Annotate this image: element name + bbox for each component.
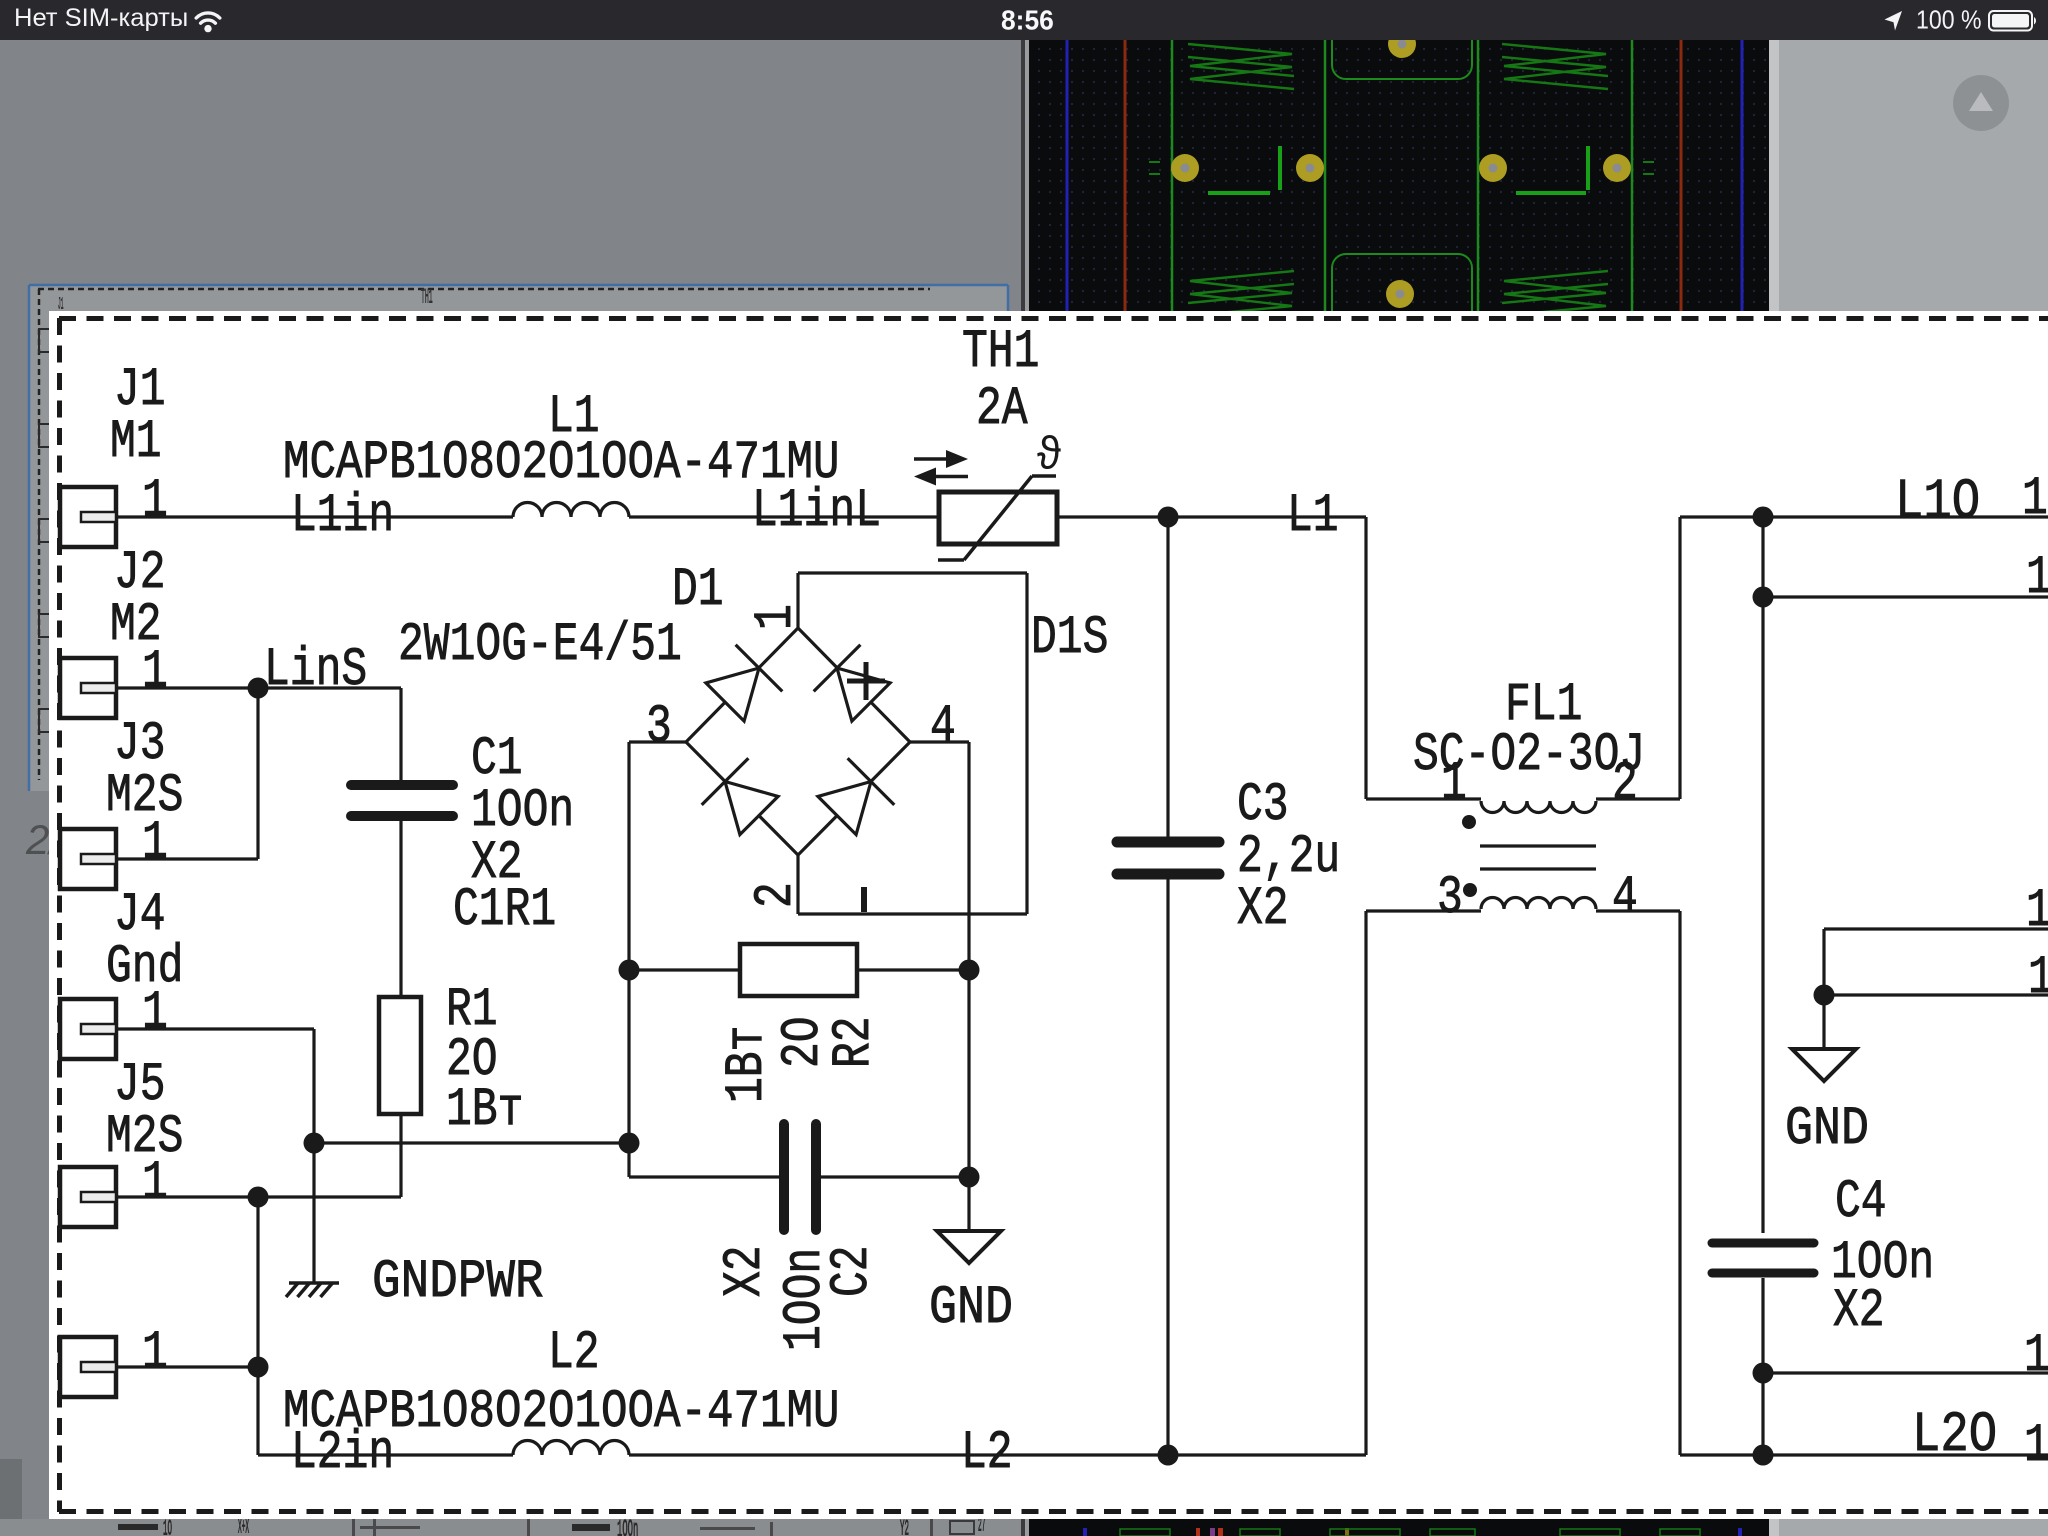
wire J4 pin (Gnd)	[116, 1027, 314, 1030]
svg-text:X2: X2	[1833, 1281, 1885, 1342]
inductor L2	[513, 1441, 629, 1456]
page blue border	[29, 284, 1008, 287]
pcb blue rail left	[1066, 40, 1069, 322]
wire FL1 pin2	[1596, 797, 1680, 800]
svg-text:TH1: TH1	[421, 286, 433, 309]
wire FL1 pin1	[1366, 797, 1481, 800]
wire D1 pin1 stem	[796, 573, 799, 628]
wire D1S loop bottom	[798, 912, 1027, 915]
resistor R1	[379, 997, 421, 1114]
svg-text:1: 1	[2026, 881, 2048, 942]
svg-text:L2: L2	[961, 1423, 1013, 1484]
svg-text:C1R1: C1R1	[453, 880, 556, 941]
junction (258,1197)	[248, 1187, 269, 1208]
svg-text:8:56: 8:56	[1001, 4, 1054, 35]
wire D1S loop right	[1025, 573, 1028, 914]
bottom strip schematic fragments	[0, 1519, 1021, 1536]
pcb trace L right	[1516, 191, 1586, 195]
wire C4 bottom down	[1761, 1278, 1764, 1455]
wire J6 pin	[116, 1365, 258, 1368]
svg-text:1: 1	[142, 471, 168, 532]
svg-text:1: 1	[2028, 948, 2048, 1009]
pcb zigzag TR	[1502, 44, 1608, 76]
junction (629,970)	[619, 960, 640, 981]
svg-text:GND: GND	[1785, 1099, 1869, 1160]
junction (1763,597)	[1753, 587, 1774, 608]
svg-text:L2: L2	[548, 1323, 600, 1384]
wire D1 pin4 stem	[910, 740, 969, 743]
filter FL1 common-mode choke	[1481, 801, 1596, 813]
status bar	[0, 0, 2048, 40]
svg-text:GNDPWR: GNDPWR	[372, 1252, 544, 1313]
wire LinS down to J3	[256, 688, 259, 859]
wire R1 bottom	[399, 1114, 402, 1197]
svg-text:R2: R2	[824, 1016, 885, 1068]
svg-text:TH1: TH1	[962, 322, 1039, 383]
svg-text:1: 1	[2022, 469, 2048, 530]
wire net L20 to edge	[1680, 1453, 2048, 1456]
junction (1763,1455)	[1753, 1445, 1774, 1466]
connector J4	[60, 999, 116, 1059]
pcb courtyard top	[1332, 21, 1472, 79]
inductor L1	[513, 502, 629, 517]
svg-text:L1: L1	[1287, 486, 1339, 547]
popup dashed sheet border	[59, 316, 2048, 321]
junction (1824,995)	[1814, 985, 1835, 1006]
wire J1 to L1	[116, 515, 513, 518]
bottom-left gray tab	[0, 1459, 22, 1536]
wire FL1 pin4	[1596, 909, 1680, 912]
svg-text:1: 1	[2026, 548, 2048, 609]
svg-text:1: 1	[2024, 1416, 2048, 1477]
wire J5 pin to R1	[116, 1195, 401, 1198]
connector J5	[60, 1167, 116, 1227]
wire FL1 pin2 up	[1678, 517, 1681, 799]
thermistor TH1	[939, 492, 1057, 544]
page mini connector squares	[39, 329, 52, 352]
wire D1 pin3 stem	[629, 740, 686, 743]
svg-text:1: 1	[2024, 1326, 2048, 1387]
svg-text:C4: C4	[1835, 1172, 1887, 1233]
wire branch to edge pin	[1824, 993, 2048, 996]
svg-text:L1O: L1O	[1895, 471, 1980, 535]
wire FL1 pin3	[1366, 909, 1481, 912]
wire D1 pin4 down to GND	[967, 742, 970, 1231]
svg-text:1Вт: 1Вт	[717, 1026, 778, 1103]
junction (314,1143)	[304, 1133, 325, 1154]
FL1 phase dots	[1462, 815, 1476, 829]
popup white sheet	[49, 311, 2048, 1519]
svg-text:1: 1	[746, 604, 807, 630]
svg-text:X2: X2	[1237, 879, 1289, 940]
wire J4 down to GNDPWR	[312, 1029, 315, 1283]
capacitor C4	[1712, 1239, 1814, 1248]
svg-text:Y2: Y2	[900, 1517, 909, 1536]
svg-text:X+X: X+X	[238, 1516, 249, 1536]
junction (629,1143)	[619, 1133, 640, 1154]
junction (1168,1455)	[1158, 1445, 1179, 1466]
power symbol GNDPWR	[289, 1281, 339, 1285]
svg-text:LinS: LinS	[264, 640, 367, 701]
wire C3 to bottom	[1166, 879, 1169, 1455]
wire J2 net LinS	[116, 686, 401, 689]
svg-text:L1in: L1in	[291, 486, 394, 547]
svg-text:L2in: L2in	[291, 1423, 394, 1484]
junction (258,688)	[248, 678, 269, 699]
pcb zigzag BL	[1188, 284, 1294, 316]
wire J5 net down to bottom	[256, 1197, 259, 1455]
wire down to C3	[1166, 517, 1169, 837]
svg-text:L1inL: L1inL	[752, 481, 881, 542]
capacitor C2	[779, 1124, 789, 1230]
wire GNDPWR net horizontal	[314, 1141, 629, 1144]
svg-text:3: 3	[1437, 868, 1463, 929]
svg-text:3: 3	[646, 697, 672, 758]
svg-text:1: 1	[142, 813, 168, 874]
svg-text:2: 2	[1612, 754, 1638, 815]
wire FL1 pin4 down	[1678, 911, 1681, 1455]
svg-text:1: 1	[142, 642, 168, 703]
capacitor C1	[351, 780, 453, 790]
D1 diamond	[686, 628, 910, 855]
connector J3	[60, 829, 116, 889]
junction (258,1367)	[248, 1357, 269, 1378]
wire FL1 pin3 down	[1364, 911, 1367, 1455]
wire to edge pin (right top)	[1824, 927, 2048, 930]
wire LinS down to C1	[399, 688, 402, 780]
wire to C2 left	[629, 1175, 779, 1178]
wire bottom L2in	[258, 1453, 513, 1456]
diode D1c (bottom-left)	[725, 782, 778, 835]
svg-text:1: 1	[142, 983, 168, 1044]
wire branch to edge pin lower	[1763, 1371, 2048, 1374]
svg-text:1O: 1O	[163, 1517, 172, 1536]
D1 plus sign	[847, 679, 885, 684]
svg-text:D1: D1	[672, 560, 724, 621]
pcb zigzag BR	[1502, 284, 1608, 316]
scroll-up button	[1953, 75, 2009, 131]
page mini dashed sheet border	[38, 288, 930, 291]
pcb bottom sliver	[1083, 1528, 1087, 1536]
diode D1d (bottom-right)	[818, 782, 871, 835]
svg-text:2: 2	[746, 882, 807, 908]
wire C1 to R1 (net C1R1)	[399, 821, 402, 997]
wire L2 net bottom	[629, 1453, 1366, 1456]
wire C2 right	[821, 1175, 969, 1178]
svg-text:X2: X2	[715, 1245, 776, 1297]
svg-text:ϑ: ϑ	[1037, 427, 1061, 479]
svg-text:GND: GND	[929, 1278, 1013, 1339]
wire down to C4	[1761, 517, 1764, 1233]
junction (1763,1373)	[1753, 1363, 1774, 1384]
pcb red rail right	[1680, 40, 1683, 322]
capacitor C3	[1117, 837, 1219, 848]
wire down to GND right	[1822, 929, 1825, 1049]
junction (969,970)	[959, 960, 980, 981]
pcb blue rail right	[1741, 40, 1744, 322]
TH1 arrows	[914, 457, 950, 461]
D1 minus sign	[861, 887, 867, 912]
svg-text:2A: 2A	[976, 379, 1028, 440]
wire branch to edge pin	[1763, 595, 2048, 598]
FL1 core line 1	[1480, 844, 1596, 847]
svg-text:Нет SIM-карты: Нет SIM-карты	[14, 4, 188, 32]
diode D1a (top-left)	[706, 668, 759, 721]
connector J2	[60, 658, 116, 718]
junction (1763,517)	[1753, 507, 1774, 528]
svg-text:L2O: L2O	[1912, 1404, 1997, 1468]
svg-text:1: 1	[1441, 754, 1467, 815]
junction (969,1177)	[959, 1167, 980, 1188]
svg-text:1: 1	[142, 1153, 168, 1214]
connector J6	[60, 1337, 116, 1397]
svg-text:2W1OG-E4/51: 2W1OG-E4/51	[398, 615, 682, 676]
ground GND (C2)	[937, 1231, 1001, 1263]
resistor R2	[740, 944, 857, 996]
ground GND (right)	[1792, 1049, 1856, 1081]
connector J1	[60, 487, 116, 547]
wire L1 to TH1	[629, 515, 939, 518]
svg-text:1Вт: 1Вт	[446, 1080, 523, 1141]
pcb red rail left	[1124, 40, 1127, 322]
junction (1168,517)	[1158, 507, 1179, 528]
svg-text:100 %: 100 %	[1916, 4, 1982, 34]
wire R2 left	[629, 968, 740, 971]
svg-text:M1: M1	[110, 412, 162, 473]
pcb trace L left	[1208, 191, 1270, 195]
svg-text:4: 4	[930, 697, 956, 758]
wire R2 right	[857, 968, 969, 971]
FL1 core line 2	[1480, 867, 1596, 870]
svg-text:1OOn: 1OOn	[617, 1517, 638, 1536]
wire D1 pin2 stem	[796, 855, 799, 914]
wire J3 pin	[116, 857, 258, 860]
wire D1 pin3 down	[627, 742, 630, 1177]
svg-text:D1S: D1S	[1031, 608, 1108, 669]
wire corner down to FL1 pin1	[1364, 517, 1367, 799]
pcb courtyard bottom	[1332, 254, 1472, 364]
page background band	[30, 286, 1008, 311]
pcb zigzag TL	[1188, 44, 1294, 76]
wire D1S loop top	[798, 571, 1027, 574]
svg-text:C2: C2	[822, 1245, 883, 1297]
pcb pads	[1171, 154, 1199, 182]
svg-text:4: 4	[1612, 868, 1638, 929]
diode D1b (top-right)	[837, 668, 890, 721]
battery icon	[1989, 11, 2032, 31]
wire net L1O to edge	[1680, 515, 2048, 518]
wire TH1 to corner (net L1)	[1057, 515, 1366, 518]
wifi icon	[196, 13, 220, 23]
svg-text:1: 1	[142, 1323, 168, 1384]
location arrow	[1885, 11, 1903, 31]
